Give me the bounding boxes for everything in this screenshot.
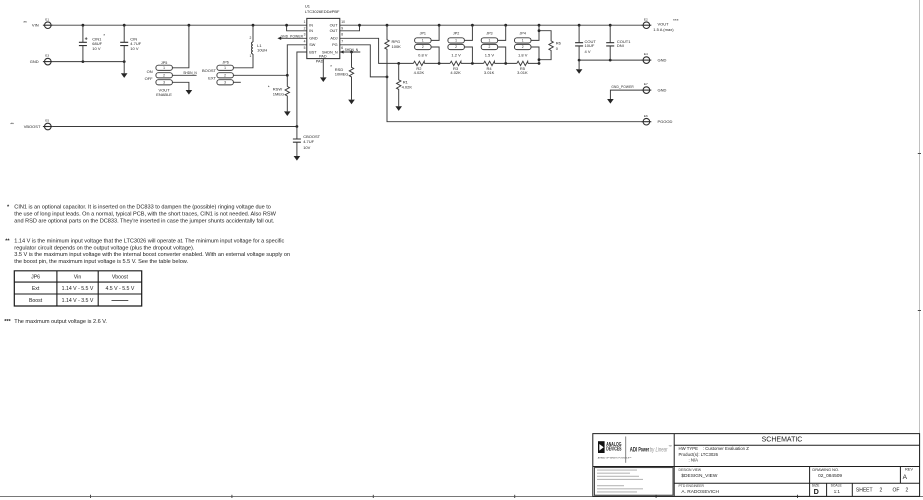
svg-text:4.02K: 4.02K: [414, 70, 425, 75]
svg-text:10V: 10V: [303, 145, 310, 150]
svg-text:***: ***: [673, 18, 679, 24]
capacitor COUT1: [606, 25, 631, 60]
svg-text:1.14 V - 5.5 V: 1.14 V - 5.5 V: [62, 286, 94, 292]
svg-text:A. RADOSEVICH: A. RADOSEVICH: [681, 489, 719, 495]
svg-text:PGOOD: PGOOD: [658, 119, 673, 124]
svg-text:E1: E1: [45, 17, 49, 21]
svg-text:E3: E3: [45, 54, 49, 58]
svg-text:3: 3: [163, 81, 165, 85]
svg-text:IN: IN: [309, 24, 313, 28]
node junction SW/RSW: [286, 74, 289, 77]
svg-text:1: 1: [488, 39, 490, 43]
node junction VOUT/COUT1: [609, 24, 612, 27]
resistor RSD: [330, 52, 353, 100]
ground symbol at pad: [320, 77, 327, 82]
svg-text:E4: E4: [644, 52, 648, 56]
wire E7 GND_POWER: [610, 90, 641, 99]
node junction FB/R1: [397, 62, 400, 65]
node junction VOUT/JP3: [504, 24, 507, 27]
svg-text:EXT: EXT: [208, 76, 216, 81]
svg-text:2: 2: [906, 487, 909, 493]
svg-text:E6: E6: [644, 114, 648, 118]
resistor RPG: [385, 25, 401, 77]
svg-text:GND_POWER: GND_POWER: [611, 85, 634, 89]
svg-text:1: 1: [304, 20, 306, 24]
table JP6/Vin/Vboost: [14, 271, 141, 306]
jumper JP1 0.8V: [415, 25, 440, 63]
ADI logo: [598, 437, 672, 463]
svg-text:D: D: [814, 487, 819, 496]
svg-text:10 V: 10 V: [130, 46, 139, 51]
svg-text:SW: SW: [309, 43, 316, 47]
svg-text:GND: GND: [658, 58, 667, 63]
resistor RSW: [268, 75, 290, 111]
wire exposed pad to ground: [322, 59, 324, 78]
svg-text:4 V: 4 V: [585, 49, 591, 54]
resistor R1: [397, 63, 413, 106]
svg-text:0.8 V: 0.8 V: [418, 53, 428, 58]
svg-text:DRAWING NO.: DRAWING NO.: [812, 467, 839, 472]
wire OUT pin9 riser: [340, 25, 360, 31]
wire SW pin to node: [287, 45, 307, 76]
jumper JP5 VOUT ENABLE: [145, 61, 173, 97]
node junction VIN/L1: [252, 24, 255, 27]
svg-text:2: 2: [422, 45, 424, 49]
node junction GND/CIN1: [82, 60, 85, 63]
wire JP5 pin3 to ground: [172, 82, 189, 90]
svg-text:1MEG: 1MEG: [273, 92, 284, 97]
wire COUT ground rail to E4: [579, 59, 642, 61]
svg-text:ENABLE: ENABLE: [156, 92, 172, 97]
svg-text:SHDN_N: SHDN_N: [183, 71, 197, 75]
svg-text:2: 2: [250, 36, 252, 40]
terminal E2 VOUT: [642, 17, 679, 32]
svg-text:3: 3: [304, 33, 306, 37]
node junction VOUT/RPG: [386, 24, 389, 27]
title block texts: [679, 437, 914, 496]
svg-text:Product(s): LTC3026: Product(s): LTC3026: [679, 452, 719, 457]
ground symbol at JP5: [186, 90, 193, 95]
net SHDN_N at U1 pin6: [340, 51, 361, 53]
ground symbol at CBOOST: [294, 156, 301, 161]
svg-text:2: 2: [880, 487, 883, 493]
svg-text:**: **: [23, 20, 27, 26]
ground symbol below COUT: [578, 60, 580, 69]
svg-text:5: 5: [304, 46, 306, 50]
svg-text:GND_POWER: GND_POWER: [281, 34, 304, 38]
page border right: [919, 0, 921, 497]
svg-text:JP3: JP3: [486, 31, 492, 35]
svg-text:VIN: VIN: [32, 23, 39, 28]
inductor L1: [250, 25, 268, 58]
svg-text:3.01K: 3.01K: [517, 70, 528, 75]
node junction FB/JP2: [471, 62, 474, 65]
svg-text:6: 6: [341, 46, 343, 50]
wire IN pin2 riser: [287, 25, 307, 31]
svg-text:HW TYPE : Customer Evaluati: HW TYPE : Customer Evaluation Z: [679, 446, 750, 451]
svg-text:4.5 V - 5.5 V: 4.5 V - 5.5 V: [105, 286, 134, 292]
svg-text:A: A: [903, 474, 908, 481]
svg-text:PAD: PAD: [316, 59, 324, 63]
svg-text:by Linear: by Linear: [650, 447, 668, 453]
svg-text:JP6: JP6: [31, 274, 40, 280]
resistor R5: [517, 61, 528, 75]
wire VOUT rail: [340, 24, 642, 26]
svg-text:and RSD are optional parts on: and RSD are optional parts on the DC833.…: [14, 218, 274, 224]
svg-text:2: 2: [488, 45, 490, 49]
svg-text:3.5 V is the maximum input vol: 3.5 V is the maximum input voltage with …: [14, 252, 290, 258]
svg-text:02_084509: 02_084509: [818, 473, 842, 479]
terminal E6 PGOOD: [642, 114, 673, 125]
svg-text:1.5 V: 1.5 V: [485, 53, 495, 58]
title block disclaimer box: [594, 468, 673, 496]
svg-text:PG: PG: [332, 43, 338, 47]
svg-text:3.01K: 3.01K: [484, 70, 495, 75]
svg-text:OFF: OFF: [145, 76, 154, 81]
svg-text:LTC3026EDD#PBF: LTC3026EDD#PBF: [305, 9, 340, 14]
note 3: [4, 319, 107, 325]
svg-text:1: 1: [422, 39, 424, 43]
svg-text:R6: R6: [556, 40, 562, 45]
node junction VIN/JP5: [188, 24, 191, 27]
svg-text:10UF: 10UF: [585, 43, 595, 48]
svg-text:Vboost: Vboost: [112, 274, 129, 280]
svg-text:PTD ENGINEER: PTD ENGINEER: [679, 484, 705, 488]
wire JP5 pin1 to VIN rail: [172, 25, 189, 68]
svg-text:regulator circuit depends on t: regulator circuit depends on the output …: [14, 245, 195, 251]
svg-text:+: +: [85, 36, 88, 42]
svg-text:JP1: JP1: [420, 31, 426, 35]
jumper JP2 1.2V: [448, 25, 473, 63]
ground symbol at RSD: [348, 100, 355, 105]
svg-text:4: 4: [304, 39, 306, 43]
node junction VOUT/JP4: [538, 24, 541, 27]
svg-text:2: 2: [455, 45, 457, 49]
svg-text:DESIGN VIEW: DESIGN VIEW: [679, 468, 702, 472]
svg-text:REV: REV: [905, 467, 913, 472]
svg-text:1: 1: [163, 66, 165, 70]
svg-text:BOOST: BOOST: [202, 68, 217, 73]
svg-text:10UH: 10UH: [257, 48, 267, 53]
terminal E7 GND: [642, 82, 667, 93]
node junction VIN/CIN: [123, 24, 126, 27]
terminal E5 VBOOST: [10, 119, 53, 130]
node junction VOUT/COUT: [578, 24, 581, 27]
terminal E4 GND: [642, 52, 667, 63]
svg-text:10 V: 10 V: [92, 46, 101, 51]
svg-text:Boost: Boost: [29, 298, 43, 304]
svg-text:$DESIGN_VIEW: $DESIGN_VIEW: [681, 473, 717, 479]
svg-text:10: 10: [341, 20, 345, 24]
svg-text:Ext: Ext: [32, 286, 40, 292]
svg-text:7: 7: [341, 39, 343, 43]
svg-text:SHEET: SHEET: [856, 487, 873, 493]
svg-text:VBOOST: VBOOST: [24, 124, 41, 129]
svg-text:4.02K: 4.02K: [450, 70, 461, 75]
svg-text:The maximum output voltage is: The maximum output voltage is 2.6 V.: [14, 319, 107, 325]
ground symbol at E7: [607, 99, 614, 104]
svg-text:1.14 V is the minimum input vo: 1.14 V is the minimum input voltage that…: [14, 239, 284, 245]
svg-text:1:1: 1:1: [834, 489, 841, 494]
node junction VOUT/JP1: [438, 24, 441, 27]
svg-text:GND: GND: [309, 37, 318, 41]
svg-text:ADJ: ADJ: [330, 37, 337, 41]
node junction VIN/CIN1: [82, 24, 85, 27]
node junction VOUT/JP2: [471, 24, 474, 27]
svg-text:1.2 V: 1.2 V: [451, 53, 461, 58]
svg-text:1: 1: [250, 54, 252, 58]
node junction FB/JP1: [438, 62, 441, 65]
jumper JP3 1.5V: [481, 25, 506, 63]
net arrow GND_POWER at U1 pin3: [281, 37, 307, 39]
wire JP6 pin1 to L1: [233, 54, 253, 68]
svg-text:1: 1: [455, 39, 457, 43]
wire GND rail: [53, 61, 125, 63]
svg-text:1: 1: [224, 66, 226, 70]
wire VIN rail: [53, 24, 307, 26]
node junction R6 top: [538, 29, 541, 32]
svg-text:GND: GND: [658, 88, 667, 93]
wire JP6 pin2 to SW node: [233, 74, 287, 76]
svg-text:1.8 V: 1.8 V: [518, 53, 528, 58]
resistor R2: [413, 61, 424, 75]
page border bottom: [0, 496, 923, 498]
wire PGOOD to E6: [387, 77, 642, 122]
ground symbol at R1: [395, 106, 402, 111]
svg-text:2: 2: [304, 27, 306, 31]
svg-text:OUT: OUT: [330, 29, 339, 33]
capacitor CIN: [120, 25, 142, 61]
svg-text:100K: 100K: [392, 44, 402, 49]
wire VBOOST rail: [53, 126, 297, 128]
ground symbol at input rail: [123, 62, 125, 74]
svg-text:E2: E2: [644, 17, 648, 21]
node junction SHDN_N/RSD: [350, 51, 353, 54]
svg-text:OF: OF: [893, 487, 900, 493]
ground symbol at RSW: [284, 111, 291, 116]
terminal E3 GND: [30, 54, 53, 65]
node junction FB/JP4: [538, 62, 541, 65]
svg-text:Power: Power: [638, 447, 649, 453]
svg-text:8: 8: [341, 33, 343, 37]
svg-text:GND: GND: [30, 59, 39, 64]
wire BST pin to VBOOST/CBOOST: [297, 52, 307, 127]
svg-text:AHEAD OF WHAT'S POSSIBLE™: AHEAD OF WHAT'S POSSIBLE™: [598, 456, 632, 459]
svg-text:E5: E5: [45, 119, 49, 123]
title block frame: [593, 434, 920, 497]
jumper JP6 BOOST/EXT: [202, 61, 233, 85]
svg-text:OUT: OUT: [330, 24, 339, 28]
node junction VOUT/pin9: [358, 24, 361, 27]
svg-text:1.14 V - 3.5 V: 1.14 V - 3.5 V: [62, 298, 94, 304]
svg-text:™: ™: [668, 445, 672, 449]
svg-text:2: 2: [522, 45, 524, 49]
node junction COUT gnd: [578, 59, 581, 62]
svg-text:3: 3: [224, 81, 226, 85]
svg-text:CIN1 is an optional capacitor.: CIN1 is an optional capacitor. It is ins…: [14, 205, 271, 211]
svg-text:SCALE: SCALE: [831, 484, 843, 488]
note 1: [7, 205, 277, 225]
svg-text:**: **: [10, 122, 14, 128]
svg-text:IN: IN: [309, 29, 313, 33]
svg-text:JP5: JP5: [161, 61, 167, 65]
svg-text:2: 2: [163, 74, 165, 78]
svg-text:ON: ON: [147, 69, 153, 74]
node junction GND/CIN: [123, 60, 126, 63]
svg-text:***: ***: [4, 319, 11, 325]
resistor R6: [539, 31, 562, 60]
svg-text:DEVICES: DEVICES: [606, 447, 622, 453]
svg-text:JP6: JP6: [222, 61, 228, 65]
svg-text:4.7UF: 4.7UF: [303, 139, 314, 144]
node junction COUT1 gnd: [609, 59, 612, 62]
svg-text:Vin: Vin: [74, 274, 82, 280]
svg-text:JP4: JP4: [520, 31, 526, 35]
node junction VBOOST/CBOOST: [296, 125, 299, 128]
svg-text:PAD: PAD: [319, 54, 327, 58]
node junction R6 bottom: [538, 58, 541, 61]
wire PG pin to PGOOD: [340, 45, 387, 77]
note 2: [5, 239, 290, 265]
node junction PG/RPG: [386, 76, 389, 79]
svg-text:the use of long input leads. O: the use of long input leads. On a normal…: [14, 212, 276, 218]
jumper JP4 1.8V: [515, 25, 540, 63]
svg-text:DNI: DNI: [617, 43, 624, 48]
node junction VIN/IN pins: [285, 24, 288, 27]
svg-text:U1: U1: [305, 4, 311, 9]
terminal E1 VIN: [23, 17, 53, 28]
capacitor COUT: [575, 25, 596, 60]
node junction FB/JP3: [504, 62, 507, 65]
wire ADJ pin to feedback rail: [340, 38, 539, 63]
svg-text:: N/A: : N/A: [689, 458, 699, 463]
svg-text:1.5 A (max): 1.5 A (max): [653, 27, 674, 32]
resistor R4: [484, 61, 495, 75]
svg-text:SCHEMATIC: SCHEMATIC: [762, 437, 803, 444]
svg-text:2: 2: [224, 74, 226, 78]
svg-text:BST: BST: [309, 50, 317, 54]
svg-text:1: 1: [522, 39, 524, 43]
svg-text:10MEG: 10MEG: [335, 71, 349, 76]
svg-text:E7: E7: [644, 82, 648, 86]
svg-text:4.02K: 4.02K: [402, 84, 413, 89]
svg-text:ADI: ADI: [630, 446, 638, 453]
wire SHDN_N from JP5 pin2: [172, 74, 196, 76]
op-amp U1 LTC3026EDD#PBF: [304, 4, 345, 64]
svg-text:JP2: JP2: [453, 31, 459, 35]
resistor R3: [450, 61, 461, 75]
capacitor CIN1: [79, 25, 106, 61]
wire JP6 pin3 stub: [233, 81, 240, 83]
capacitor CBOOST: [293, 127, 321, 157]
svg-text:9: 9: [341, 27, 343, 31]
svg-text:the boost pin, the maximum inp: the boost pin, the maximum input voltage…: [14, 259, 188, 265]
